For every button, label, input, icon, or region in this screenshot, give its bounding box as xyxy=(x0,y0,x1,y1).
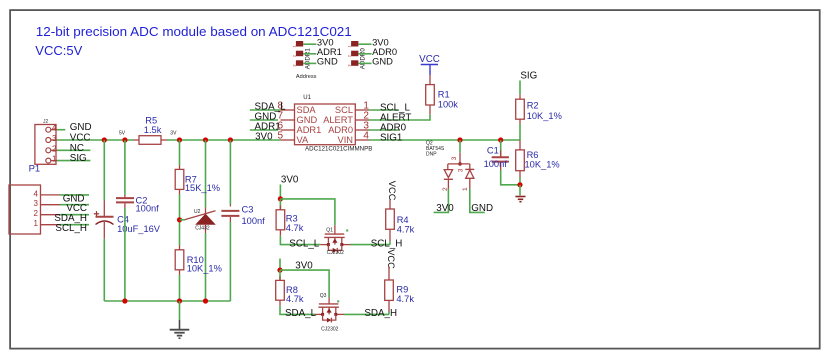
junction C1 xyxy=(498,137,503,142)
svg-text:R6: R6 xyxy=(527,150,539,160)
wire SCL_L stub xyxy=(369,109,399,111)
svg-text:SCL_L: SCL_L xyxy=(289,238,320,249)
svg-text:ADDR1: ADDR1 xyxy=(304,48,311,70)
resistor R2 xyxy=(516,95,562,125)
svg-text:1: 1 xyxy=(52,155,57,164)
svg-text:15K_1%: 15K_1% xyxy=(185,183,220,193)
svg-text:100nf: 100nf xyxy=(484,159,508,169)
wire R9 bottom xyxy=(388,312,390,315)
header ADDR0 xyxy=(347,41,367,69)
svg-text:GND: GND xyxy=(372,56,393,67)
wire R8 to SDA_L row xyxy=(280,306,315,315)
wire ground stub xyxy=(179,301,181,320)
wire C2 top xyxy=(124,140,126,195)
wire header1 pin1 xyxy=(303,43,316,45)
junction R8/gate xyxy=(277,268,282,273)
resistor R4 xyxy=(386,200,415,242)
wire P1 GND xyxy=(57,129,65,131)
svg-text:R1: R1 xyxy=(438,90,450,100)
svg-text:DNP: DNP xyxy=(426,152,437,158)
svg-text:1.5k: 1.5k xyxy=(144,125,162,135)
junction R7 xyxy=(177,137,182,142)
wire R7 top xyxy=(179,140,181,166)
wire C3 top xyxy=(229,140,231,205)
wire VCC main (P1 to R5) xyxy=(57,139,134,141)
wire ALERT xyxy=(369,115,430,120)
header ADDR1 xyxy=(291,41,311,69)
wire SDA_L stub xyxy=(250,109,281,111)
diode Q2 D1 (to 3V0) xyxy=(442,170,453,191)
resistor R3 xyxy=(276,199,304,236)
junction R3/gate xyxy=(278,196,283,201)
svg-text:P1: P1 xyxy=(29,164,41,175)
svg-text:ADDR0: ADDR0 xyxy=(360,48,367,70)
resistor R9 xyxy=(385,267,415,312)
svg-text:SCL: SCL xyxy=(335,105,353,115)
svg-text:VA: VA xyxy=(297,135,310,145)
junction C2 xyxy=(122,137,127,142)
capacitor C4 (polarized) xyxy=(94,201,161,239)
capacitor C3 xyxy=(221,205,265,226)
svg-text:R2: R2 xyxy=(527,101,539,111)
pin 8 lead xyxy=(281,109,295,111)
pin 2 lead xyxy=(355,119,369,121)
wire P1 SIG xyxy=(57,160,90,162)
svg-text:1: 1 xyxy=(291,45,296,48)
junction divider node xyxy=(177,217,182,222)
wire SCL row right xyxy=(351,244,391,246)
wire header1 pin3 xyxy=(303,62,316,64)
power VCC (R1) xyxy=(419,54,440,75)
svg-text:VIN: VIN xyxy=(338,135,354,145)
wire SIG to R2 xyxy=(519,81,521,95)
wire ADR1 stub xyxy=(250,129,278,131)
svg-text:4: 4 xyxy=(52,124,57,133)
junction C4 xyxy=(102,137,107,142)
svg-text:10K_1%: 10K_1% xyxy=(187,264,222,274)
resistor R10 xyxy=(175,246,222,275)
junction R6/C1 xyxy=(517,182,522,187)
ground (earth) xyxy=(170,320,190,338)
svg-text:U2: U2 xyxy=(194,209,201,215)
junction U2 xyxy=(203,137,208,142)
svg-text:Q1: Q1 xyxy=(326,228,333,234)
wire R5 lead right xyxy=(161,139,167,141)
resistor R8 xyxy=(276,270,304,306)
svg-text:CJ2302: CJ2302 xyxy=(321,327,338,333)
svg-text:2: 2 xyxy=(291,54,296,57)
resistor R7 xyxy=(175,166,220,195)
svg-text:CJ432: CJ432 xyxy=(195,226,210,232)
svg-text:10uF_16V: 10uF_16V xyxy=(117,224,161,234)
wire SIG1 xyxy=(369,139,520,141)
svg-text:GND: GND xyxy=(317,56,338,67)
svg-text:C1: C1 xyxy=(487,146,499,156)
svg-text:12-bit precision ADC module ba: 12-bit precision ADC module based on ADC… xyxy=(36,24,352,39)
svg-text:4.7k: 4.7k xyxy=(286,223,304,233)
svg-text:10K_1%: 10K_1% xyxy=(525,160,560,170)
wire J1 SDA_H xyxy=(60,214,89,216)
connector P1 xyxy=(29,119,57,175)
junction rail C2 xyxy=(122,298,127,303)
wire header1 pin2 xyxy=(303,53,316,55)
wire header2 pin2 xyxy=(358,53,371,55)
svg-text:3: 3 xyxy=(291,64,296,67)
wire gate feed Q3 xyxy=(280,270,329,297)
svg-text:3: 3 xyxy=(52,134,57,143)
pin 7 lead xyxy=(281,119,295,121)
wire U2 ref xyxy=(180,219,186,221)
svg-text:SDA_L: SDA_L xyxy=(285,308,317,319)
svg-text:2: 2 xyxy=(347,54,352,57)
resistor R5 xyxy=(139,116,162,145)
wire ground rail xyxy=(104,300,230,302)
wire gate feed Q1 xyxy=(280,199,335,226)
svg-text:SIG: SIG xyxy=(70,153,87,164)
wire 3V0 main (R5 to U1 VA) xyxy=(167,139,281,141)
svg-text:SCL_H: SCL_H xyxy=(371,238,403,249)
wire GND stub xyxy=(250,119,278,121)
svg-text:VCC: VCC xyxy=(387,181,397,201)
wire 3V0 to junction (SCL) xyxy=(279,185,281,199)
svg-text:10K_1%: 10K_1% xyxy=(527,111,562,121)
svg-text:CJ2302: CJ2302 xyxy=(327,250,344,256)
wire C4 top xyxy=(103,140,105,201)
wire C1 bottom xyxy=(501,170,520,185)
pin 3 lead xyxy=(355,129,369,131)
transistor Q2 BAT54S xyxy=(426,141,470,173)
svg-text:SDA: SDA xyxy=(297,105,317,115)
regulator U2 CJ432 xyxy=(185,208,216,234)
transistor Q3 CJ2302 xyxy=(315,293,344,333)
svg-text:100nf: 100nf xyxy=(136,203,160,213)
svg-text:100nf: 100nf xyxy=(242,216,266,226)
wire R2 bottom xyxy=(519,124,521,140)
svg-text:VCC: VCC xyxy=(419,54,440,65)
wire R4 bottom xyxy=(389,242,391,245)
wire SDA row right xyxy=(344,313,389,315)
wire header2 pin1 xyxy=(358,43,371,45)
svg-text:4: 4 xyxy=(34,189,39,198)
wire R7 to R10 xyxy=(179,194,181,246)
wire C4 bottom xyxy=(103,239,105,301)
svg-text:1: 1 xyxy=(34,219,39,228)
svg-text:J2: J2 xyxy=(43,119,49,125)
wire R3 to SCL_L row xyxy=(280,236,320,245)
svg-text:3V0: 3V0 xyxy=(436,203,454,214)
svg-text:4.7k: 4.7k xyxy=(397,224,415,234)
junction C3 xyxy=(228,137,233,142)
wire Q2 top xyxy=(459,140,461,153)
svg-text:Address: Address xyxy=(296,74,317,80)
junction rail R10 xyxy=(177,298,182,303)
svg-text:Q3: Q3 xyxy=(320,293,327,299)
junction rail U2 xyxy=(203,298,208,303)
svg-text:GND: GND xyxy=(297,115,318,125)
wire R10 bottom xyxy=(179,275,181,302)
svg-text:1: 1 xyxy=(462,187,469,191)
resistor R1 xyxy=(426,75,459,115)
wire ADR0 stub xyxy=(369,129,399,131)
svg-text:3V: 3V xyxy=(170,131,177,137)
diode Q2 D2 (to GND) xyxy=(462,169,474,191)
svg-text:ADR0: ADR0 xyxy=(328,125,353,135)
capacitor C2 xyxy=(116,195,159,213)
svg-text:1: 1 xyxy=(347,45,352,48)
wire P1 NC xyxy=(57,149,90,151)
svg-text:3: 3 xyxy=(457,168,464,172)
svg-text:3V0: 3V0 xyxy=(255,132,273,143)
svg-text:SDA_H: SDA_H xyxy=(364,308,397,319)
connector J1 (edge connector) xyxy=(9,185,60,234)
svg-text:SCL_H: SCL_H xyxy=(55,223,87,234)
svg-text:4: 4 xyxy=(363,131,369,142)
wire 3V0 stub (SDA shifter) xyxy=(279,259,281,271)
wire R5 lead left xyxy=(134,139,140,141)
wire ground stub (R6) xyxy=(519,185,521,196)
svg-text:U1: U1 xyxy=(303,95,311,101)
svg-text:GND: GND xyxy=(471,203,493,214)
svg-text:5V: 5V xyxy=(119,131,126,137)
transistor Q1 CJ2302 xyxy=(320,225,350,256)
svg-text:ADR1: ADR1 xyxy=(297,125,322,135)
svg-text:ALERT: ALERT xyxy=(323,115,353,125)
wire U2 anode xyxy=(205,233,207,301)
svg-text:3: 3 xyxy=(451,156,458,160)
pin 1 lead xyxy=(355,109,369,111)
capacitor C1 xyxy=(484,140,509,170)
svg-text:VCC:5V: VCC:5V xyxy=(35,43,82,58)
wire J1 SCL_H xyxy=(60,224,89,226)
wire Q2 pin1 to GND xyxy=(470,189,485,213)
ground (R6/C1) xyxy=(515,197,525,202)
svg-text:ADC121C021CIMMNPB: ADC121C021CIMMNPB xyxy=(305,145,372,152)
wire J1 GND xyxy=(60,194,89,196)
junction Q2 xyxy=(457,137,462,142)
wire header2 pin3 xyxy=(358,62,371,64)
pin 5 lead xyxy=(281,139,295,141)
svg-text:4.7k: 4.7k xyxy=(396,294,414,304)
svg-text:100k: 100k xyxy=(438,100,459,110)
wire J1 VCC xyxy=(60,204,89,206)
svg-text:4.7k: 4.7k xyxy=(286,294,304,304)
svg-text:3: 3 xyxy=(347,64,352,67)
svg-text:3V0: 3V0 xyxy=(281,175,299,186)
svg-text:SIG: SIG xyxy=(520,70,537,81)
wire R6 bottom xyxy=(519,177,521,185)
resistor R6 xyxy=(516,140,560,177)
svg-text:C3: C3 xyxy=(242,205,254,215)
wire U2 cathode xyxy=(205,140,207,208)
wire C3 bottom xyxy=(229,222,231,301)
op-amp U1 ADC121C021 xyxy=(295,95,373,152)
pin 6 lead xyxy=(281,129,295,131)
pin 4 lead xyxy=(355,139,369,141)
svg-text:3: 3 xyxy=(34,199,39,208)
svg-text:SIG1: SIG1 xyxy=(380,132,402,143)
wire C2 bottom xyxy=(124,208,126,301)
svg-text:2: 2 xyxy=(34,209,39,218)
svg-text:2: 2 xyxy=(52,144,57,153)
svg-text:VCC: VCC xyxy=(386,249,396,269)
wire Q2 pin2 to 3V0 xyxy=(434,189,449,213)
